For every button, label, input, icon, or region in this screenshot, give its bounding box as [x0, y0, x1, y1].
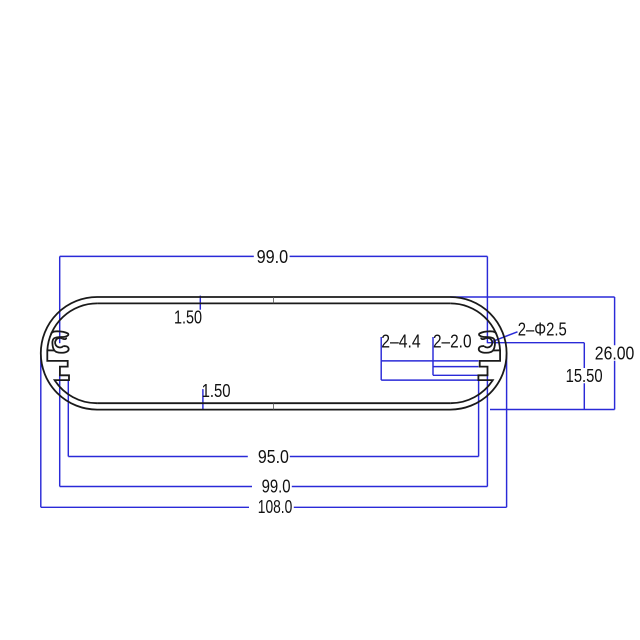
right end: mirrored features: [450, 303, 500, 403]
dim 15.50 top extension: [487, 342, 584, 344]
dim 1.50 bottom wall tick: [202, 389, 204, 410]
svg-text:2–4.4: 2–4.4: [381, 332, 421, 352]
screw channel upper jaw hook: [62, 338, 66, 339]
dim 2-2.0 upper extension: [433, 366, 479, 368]
dim 108.0 left extension: [40, 353, 42, 507]
bracket top ledge: [47, 349, 54, 351]
dim 95.0 right extension: [478, 380, 480, 456]
inner wall top line: [97, 302, 450, 304]
dim 99.0 top left extension: [59, 256, 61, 343]
wall seam tick top center: [272, 297, 274, 303]
svg-text:2–2.0: 2–2.0: [433, 332, 472, 352]
svg-text:15.50: 15.50: [566, 366, 603, 386]
dim 1.50 top wall tick: [199, 296, 201, 310]
svg-text:108.0: 108.0: [258, 497, 293, 517]
leader 2-PHI2.5: [492, 332, 518, 342]
outer stadium wall: [41, 297, 507, 410]
dim 95.0 line: [68, 456, 478, 458]
bracket top ledge (right): [493, 349, 500, 351]
dim 99.0 bottom right extension: [486, 374, 488, 487]
svg-text:1.50: 1.50: [202, 381, 231, 401]
svg-text:95.0: 95.0: [258, 447, 289, 467]
svg-text:1.50: 1.50: [174, 308, 202, 328]
shared bottom extension for 26.00 and 15.50: [490, 409, 615, 411]
inner wall bottom line: [97, 402, 450, 404]
dim 99.0 top line: [60, 255, 488, 257]
svg-text:99.0: 99.0: [262, 476, 291, 496]
dim 2-4.4 lower extension: [381, 379, 478, 381]
screw boss eyebrow band (right): [479, 331, 497, 352]
dim 2-4.4 pole: [380, 337, 382, 380]
screw channel upper jaw hook (right): [481, 338, 485, 339]
dim 2-2.0 pole: [432, 337, 434, 375]
dim 95.0 left extension: [67, 380, 69, 456]
left end: inner arc + screw bracket teeth: [47, 303, 97, 403]
screw boss eyebrow band: [51, 331, 69, 352]
inner wall right arc + bracket teeth (mirrored): [450, 303, 500, 403]
inner wall left arc upper + bracket chord: [47, 303, 97, 403]
svg-text:99.0: 99.0: [257, 247, 289, 267]
dim 99.0 bottom line: [60, 486, 488, 488]
svg-text:2–Φ2.5: 2–Φ2.5: [518, 320, 567, 340]
screw hole arc: [55, 338, 63, 348]
dim 15.50 line: [583, 343, 585, 410]
dim 2-2.0 lower extension: [433, 374, 479, 376]
dim 26.00 line: [614, 297, 616, 410]
dim 108.0 line: [41, 506, 507, 508]
dim 108.0 right extension: [506, 353, 508, 507]
dim 26.00 top extension: [450, 296, 614, 298]
dim 2-4.4 upper extension: [381, 360, 478, 362]
wall seam tick bottom center: [272, 403, 274, 409]
dim 99.0 top right extension: [486, 256, 488, 343]
screw hole arc (right): [484, 338, 492, 348]
svg-text:26.00: 26.00: [595, 344, 635, 364]
dim 99.0 bottom left extension: [59, 374, 61, 487]
